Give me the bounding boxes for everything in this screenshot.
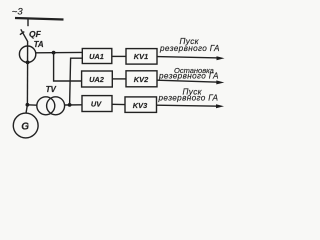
svg-text:резервного ГА: резервного ГА [158,93,219,102]
svg-text:UA1: UA1 [89,52,104,61]
box UA1 [82,49,112,64]
svg-text:KV3: KV3 [133,101,148,110]
arrowhead KV2 [216,80,224,84]
current transformer TA [19,46,35,62]
arrowhead KV3 [216,104,224,108]
svg-text:QF: QF [29,29,42,39]
breaker QF [20,29,28,41]
wire TA secondary to UA1 [36,51,83,53]
wire branch to UA2 [54,53,82,81]
svg-text:KV2: KV2 [134,75,149,84]
wire QF to TA [27,41,29,62]
junction TA bottom [26,61,30,65]
junction node TV-UV [68,103,72,107]
generator G [13,113,38,138]
bus bar [15,18,64,20]
wire arrow KV3 output [157,105,220,106]
wire UA2 to KV2 [112,78,126,80]
arrowhead KV1 [217,56,225,60]
wire node up to UA1 lower input [70,58,83,105]
junction TA branch [52,51,56,55]
box UV [82,96,112,112]
wire TA to generator (main vertical) [26,62,28,104]
box KV1 [126,49,157,65]
svg-text:резервного ГА: резервного ГА [158,72,219,81]
svg-text:TA: TA [34,40,44,49]
svg-text:~3: ~3 [12,7,24,18]
svg-text:G: G [21,121,29,132]
junction TV tap [26,103,30,107]
wire UV to KV3 [112,103,125,105]
node bus tap [27,19,29,27]
box KV3 [125,97,157,113]
wire tap to TV primary [27,104,37,106]
svg-text:резервного ГА: резервного ГА [159,44,220,53]
svg-text:KV1: KV1 [134,52,148,61]
box UA2 [82,71,113,87]
wire TV secondary to UV [65,104,82,106]
svg-text:UA2: UA2 [89,75,105,84]
svg-text:UV: UV [91,100,102,109]
wire tap to generator [26,105,27,113]
transformer TV [37,97,65,115]
wire UA1 to KV1 [112,55,126,57]
box KV2 [126,71,157,87]
svg-text:TV: TV [46,85,57,94]
wire arrow KV1 output [157,57,219,58]
wire arrow KV2 output [157,80,219,82]
